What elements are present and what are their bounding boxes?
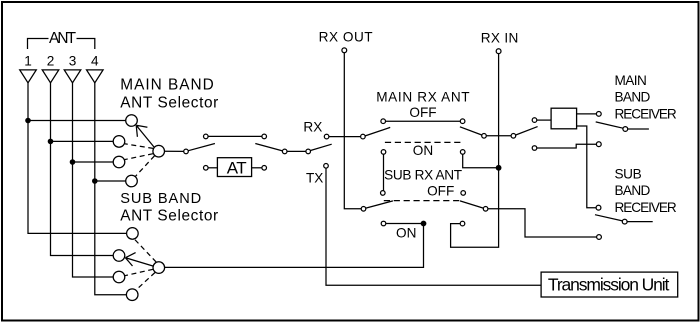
receiver select blade xyxy=(516,127,538,135)
sub selector contact 2 xyxy=(113,250,125,262)
svg-text:2: 2 xyxy=(47,54,55,69)
node RX IN junction xyxy=(496,165,502,171)
wire main pole to selector pole xyxy=(486,135,511,137)
wire main on left to sub off left xyxy=(383,154,385,190)
svg-text:MAIN: MAIN xyxy=(615,73,647,88)
TR switch pole xyxy=(306,149,311,154)
wire ANT4 feeder xyxy=(95,83,127,295)
node main row1 junction xyxy=(25,118,31,124)
sub relay pole left xyxy=(361,207,366,212)
antenna 4 xyxy=(87,70,104,83)
wire main selector dashed to contact 4 xyxy=(136,156,155,177)
svg-text:BAND: BAND xyxy=(615,90,651,105)
wire main common to AT switch pole xyxy=(165,150,184,152)
relay linkage dashed (sub) xyxy=(384,200,462,202)
wire sub selector dashed to contact 3 xyxy=(125,269,153,275)
antenna tuner AT box xyxy=(217,158,251,178)
receiver select pole xyxy=(511,134,516,139)
main receiver switch blade xyxy=(596,122,623,128)
wire AT bypass xyxy=(208,135,262,137)
sub relay blade left xyxy=(366,201,393,208)
AT switch blade (left) xyxy=(188,144,215,151)
sub selector contact 4 xyxy=(126,289,138,301)
SUB BAND ANT Selector label xyxy=(120,191,218,224)
wire main row4 xyxy=(95,180,126,182)
wire RX OUT line xyxy=(344,53,361,209)
sub off contact right xyxy=(461,191,466,196)
node main row4 junction xyxy=(92,178,98,184)
wire ANT3 feeder xyxy=(73,83,114,277)
wire to main band receiver xyxy=(628,128,649,130)
AT switch blade (right) xyxy=(255,144,282,151)
main on contact right xyxy=(460,150,465,155)
main relay blade left xyxy=(365,127,390,135)
wire direct feed to main receiver contact B xyxy=(537,144,597,148)
ANT group label xyxy=(28,30,95,49)
TX contact xyxy=(324,164,329,169)
sub on contact right xyxy=(460,221,465,226)
sub receiver switch pole xyxy=(622,219,627,224)
svg-text:RX OUT: RX OUT xyxy=(319,29,373,44)
svg-text:ON: ON xyxy=(396,225,416,240)
main receiver contact B xyxy=(596,142,601,147)
wire TX to transmission unit xyxy=(326,168,541,285)
sub selector contact 3 xyxy=(113,271,125,283)
sub selector common xyxy=(153,262,165,274)
MAIN BAND ANT Selector label xyxy=(120,76,218,111)
svg-text:RECEIVER: RECEIVER xyxy=(615,200,677,215)
main selector wiper arrow xyxy=(136,125,154,147)
wire filter box to main receiver contact xyxy=(577,113,597,115)
wire main off row xyxy=(386,120,461,122)
svg-text:ON: ON xyxy=(413,143,433,158)
main off contact right xyxy=(460,119,465,124)
wire main selector dashed to contact 2 xyxy=(125,144,154,149)
svg-text:1: 1 xyxy=(24,54,32,69)
svg-text:4: 4 xyxy=(91,54,99,69)
sub receiver contact B xyxy=(597,235,602,240)
sub receiver contact A xyxy=(596,205,601,210)
direct feed contact xyxy=(532,146,537,151)
svg-text:ANT: ANT xyxy=(49,30,77,47)
svg-text:MAIN RX ANT: MAIN RX ANT xyxy=(376,90,469,105)
wire sub selector dashed to contact 1 xyxy=(134,239,156,262)
main receiver switch pole xyxy=(623,127,628,132)
svg-text:3: 3 xyxy=(69,54,77,69)
wire RX contact to relay pole xyxy=(329,136,361,138)
antenna 1 xyxy=(20,70,37,83)
node main row2 junction xyxy=(48,139,54,145)
main selector common xyxy=(153,145,165,157)
svg-text:MAIN BAND: MAIN BAND xyxy=(120,76,214,93)
svg-text:RX: RX xyxy=(303,120,322,135)
sub selector wiper arrow xyxy=(125,253,152,266)
sub relay pole right xyxy=(483,207,488,212)
node main row3 junction xyxy=(70,159,76,165)
AT bypass contact left xyxy=(204,134,209,139)
SUB BAND RECEIVER label xyxy=(615,166,677,215)
wire main selector dashed to contact 3 xyxy=(125,154,153,160)
RX OUT terminal xyxy=(342,48,347,53)
svg-text:RECEIVER: RECEIVER xyxy=(615,107,677,122)
AT output contact xyxy=(262,166,267,171)
svg-text:BAND: BAND xyxy=(615,183,651,198)
antenna 2 xyxy=(42,70,59,83)
svg-text:SUB: SUB xyxy=(615,166,642,181)
wire contact to filter box xyxy=(537,119,551,121)
AT bypass contact right xyxy=(262,134,267,139)
svg-text:RX IN: RX IN xyxy=(481,30,519,45)
svg-text:OFF: OFF xyxy=(409,105,436,120)
main off contact left xyxy=(381,119,386,124)
MAIN BAND RECEIVER label xyxy=(615,73,677,122)
svg-text:AT: AT xyxy=(227,158,247,177)
main relay pole left xyxy=(361,134,366,139)
main relay blade right xyxy=(460,127,482,135)
wire AT pole to TR pole xyxy=(287,150,306,152)
main selector contact 4 xyxy=(126,175,138,187)
RX IN terminal xyxy=(496,49,501,54)
wire RX IN line xyxy=(451,54,499,248)
svg-text:TX: TX xyxy=(306,170,323,185)
main receiver contact A xyxy=(596,112,601,117)
AT switch pole (right) xyxy=(282,149,287,154)
wire main row3 xyxy=(73,161,114,163)
main receiver feed contact xyxy=(532,118,537,123)
svg-text:ANT Selector: ANT Selector xyxy=(120,94,218,111)
wire main row1 xyxy=(28,120,126,122)
AT switch pole (left) xyxy=(184,149,189,154)
filter box xyxy=(551,108,577,129)
wire filter box to sub receiver contact xyxy=(577,126,597,208)
wire AT input xyxy=(208,167,217,169)
svg-text:Transmission Unit: Transmission Unit xyxy=(548,275,670,295)
wire junction to sub common xyxy=(165,224,424,268)
node sub on junction xyxy=(421,221,427,227)
main on contact left xyxy=(381,150,386,155)
wire sub pole to sub receiver contact xyxy=(488,209,597,237)
AT input contact xyxy=(204,166,209,171)
wire to sub band receiver xyxy=(627,221,653,223)
main selector contact 3 xyxy=(113,156,125,168)
sub receiver switch blade xyxy=(595,215,622,221)
wire main row2 xyxy=(51,140,114,142)
Transmission Unit box xyxy=(541,272,678,297)
relay linkage dashed (main) xyxy=(385,141,461,143)
sub on contact left xyxy=(381,221,386,226)
sub off contact left xyxy=(381,191,386,196)
svg-text:OFF: OFF xyxy=(427,183,454,198)
main selector contact 1 xyxy=(126,115,138,127)
sub selector contact 1 xyxy=(127,228,139,240)
wire ANT2 feeder xyxy=(51,83,114,256)
RX contact xyxy=(324,134,329,139)
antenna 3 xyxy=(64,70,81,83)
svg-text:ANT Selector: ANT Selector xyxy=(120,208,218,225)
sub relay blade right xyxy=(460,201,483,208)
TR switch blade xyxy=(311,144,332,150)
wire AT output xyxy=(252,167,262,169)
svg-text:SUB RX ANT: SUB RX ANT xyxy=(384,168,462,183)
svg-text:SUB BAND: SUB BAND xyxy=(120,191,201,207)
main relay pole right xyxy=(482,134,487,139)
wire ANT1 feeder xyxy=(28,83,127,234)
wire main on right to RX IN xyxy=(463,154,499,168)
wire sub on to junction xyxy=(386,223,424,225)
wire sub selector dashed to contact 4 xyxy=(136,273,155,291)
main selector contact 2 xyxy=(113,136,125,148)
